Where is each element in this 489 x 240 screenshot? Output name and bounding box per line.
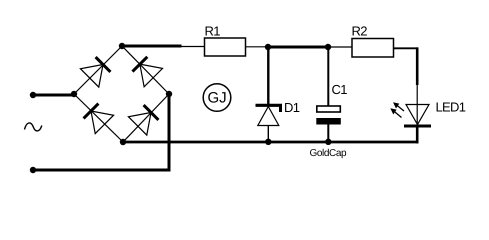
wire: node B down to C1: [327, 47, 329, 106]
resistor R1: [205, 38, 246, 56]
svg-text:R2: R2: [352, 24, 368, 39]
wire: bottom terminal horizontal run: [33, 169, 171, 172]
LED1 light arrow (lower): [390, 108, 401, 117]
LED1 triangle: [406, 105, 429, 125]
node: bridge left: [71, 91, 77, 97]
wire: bridge edge left-top: [74, 46, 122, 94]
bridge diode (top-right): [131, 55, 163, 87]
node: bridge top: [119, 43, 125, 49]
wire: bridge edge top-right: [122, 46, 169, 94]
node: D1 bottom junction: [265, 139, 271, 145]
wire: vertical up to bridge right node: [168, 94, 171, 172]
capacitor C1 top plate (outline): [317, 106, 341, 112]
svg-text:C1: C1: [332, 82, 348, 97]
bridge diode (bottom-right): [128, 103, 160, 135]
wire: node A to node B (thick): [268, 46, 328, 49]
wire: vertical down to LED1 (thick part): [416, 47, 419, 85]
svg-text:GoldCap: GoldCap: [310, 148, 348, 159]
capacitor C1 bottom plate (filled): [316, 118, 341, 125]
bridge diode (bottom-left): [82, 102, 114, 134]
svg-text:D1: D1: [284, 100, 300, 115]
AC input terminal (top): [30, 92, 36, 98]
wire: node B to R2 lead: [328, 46, 352, 48]
wire: bridge top node to R1 (thick part): [122, 45, 182, 48]
node: bridge bottom: [120, 139, 126, 145]
wire: bottom rail (bridge bottom to LED1): [123, 141, 419, 144]
AC sine symbol: [25, 123, 42, 131]
wire: LED1 top lead (thin): [416, 85, 418, 105]
wire: R1 left lead: [182, 46, 205, 48]
wire: node A down to D1: [267, 47, 269, 104]
wire: R1 right lead: [246, 46, 269, 48]
bridge diode (top-left): [80, 55, 112, 87]
node: C1 bottom junction: [325, 139, 331, 145]
wire: bridge edge bottom-right: [123, 94, 169, 142]
LED1 light arrow (upper): [393, 102, 404, 111]
LED1 cathode bar: [404, 125, 431, 128]
node B (C1 top junction): [325, 44, 331, 50]
svg-text:GJ: GJ: [208, 90, 227, 107]
wire: LED1 bottom lead to rail: [416, 126, 419, 143]
wire: D1 bottom lead: [267, 126, 269, 143]
svg-text:LED1: LED1: [436, 99, 466, 114]
wire: top terminal to bridge left node: [33, 94, 74, 97]
zener diode D1 cathode bar: [256, 104, 283, 107]
zener D1 triangle: [258, 107, 279, 126]
wire: bridge edge left-bottom: [74, 94, 123, 142]
svg-text:R1: R1: [205, 24, 221, 39]
wire: C1 bottom lead: [327, 125, 329, 143]
node A (D1 top junction): [265, 44, 271, 50]
wire: R2 right lead to corner: [394, 47, 419, 49]
node: bridge right: [166, 91, 172, 97]
logo GJ circle: [203, 84, 231, 112]
wire: LED1 axis through triangle: [416, 105, 418, 127]
AC input terminal (bottom): [30, 167, 36, 173]
zener D1 bar right bend: [279, 105, 282, 112]
resistor R2: [352, 39, 394, 58]
